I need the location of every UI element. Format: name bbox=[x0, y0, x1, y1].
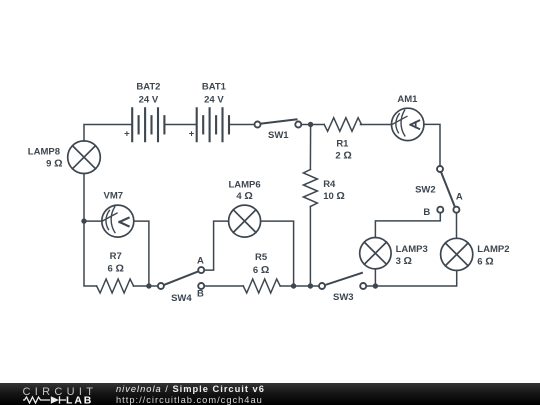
svg-text:R4: R4 bbox=[323, 179, 336, 190]
svg-text:SW3: SW3 bbox=[333, 292, 354, 303]
wire: LAMP2 bottom rail bbox=[375, 271, 456, 287]
wire: junction to VM7 bbox=[84, 220, 102, 222]
svg-text:LAMP3: LAMP3 bbox=[396, 244, 428, 255]
resistor R5 bbox=[243, 279, 280, 293]
svg-text:AM1: AM1 bbox=[397, 94, 418, 105]
svg-text:A: A bbox=[456, 191, 463, 202]
footer line 1 bbox=[116, 384, 265, 394]
svg-text:6 Ω: 6 Ω bbox=[253, 264, 269, 276]
CircuitLab logo bbox=[0, 383, 112, 405]
wire: R5 to SW4 B bbox=[205, 285, 244, 287]
wire: AM1 to SW2 bbox=[424, 124, 440, 165]
wire: R1 to AM1 bbox=[361, 124, 392, 126]
svg-text:LAMP6: LAMP6 bbox=[228, 180, 260, 191]
switch SW1 bbox=[255, 119, 302, 127]
svg-text:B: B bbox=[197, 288, 204, 299]
svg-text:LAMP2: LAMP2 bbox=[477, 244, 509, 255]
lamp LAMP2 bbox=[441, 238, 473, 270]
meter VM7 voltmeter bbox=[102, 205, 134, 237]
svg-text:B: B bbox=[423, 207, 430, 218]
svg-text:3 Ω: 3 Ω bbox=[396, 255, 412, 267]
svg-text:LAMP8: LAMP8 bbox=[28, 146, 60, 157]
svg-text:2 Ω: 2 Ω bbox=[335, 150, 351, 162]
meter AM1 ammeter bbox=[392, 108, 424, 140]
switch SW3 bbox=[319, 273, 366, 289]
wire: LAMP6 right to rail bbox=[261, 221, 294, 286]
svg-text:SW1: SW1 bbox=[268, 130, 289, 141]
wire: SW3 right contact to junction bbox=[367, 285, 376, 287]
battery BAT2 bbox=[132, 108, 164, 141]
svg-text:SW4: SW4 bbox=[171, 293, 192, 304]
svg-text:R1: R1 bbox=[336, 139, 349, 150]
wire: SW4 A to LAMP6 bbox=[205, 221, 229, 270]
svg-text:24 V: 24 V bbox=[204, 94, 224, 105]
footer line 2 bbox=[116, 395, 263, 405]
node junction VM7/rail bbox=[146, 283, 151, 288]
node junction LAMP6/rail bbox=[291, 283, 296, 288]
svg-text:10 Ω: 10 Ω bbox=[323, 190, 345, 202]
wire: BAT2 to BAT1 bbox=[164, 124, 196, 126]
svg-text:24 V: 24 V bbox=[139, 94, 159, 105]
svg-text:R5: R5 bbox=[255, 252, 268, 263]
svg-text:R7: R7 bbox=[110, 251, 122, 262]
wire: SW1 to R1 bbox=[302, 124, 325, 126]
battery BAT1 bbox=[197, 108, 229, 141]
switch SW4 bbox=[158, 267, 204, 289]
lamp LAMP6 bbox=[229, 205, 261, 237]
svg-text:4 Ω: 4 Ω bbox=[236, 190, 252, 202]
wire: LAMP3 bottom to rail bbox=[374, 269, 376, 286]
svg-text:BAT1: BAT1 bbox=[202, 82, 227, 93]
svg-text:+: + bbox=[124, 128, 130, 139]
footer bar bbox=[0, 383, 540, 405]
resistor R4 bbox=[303, 170, 317, 207]
lamp LAMP3 bbox=[360, 238, 391, 269]
svg-text:SW2: SW2 bbox=[415, 185, 436, 196]
node junction LAMP8/VM7 bbox=[81, 218, 86, 223]
node junction SW1/R1/R4 bbox=[308, 122, 313, 127]
node junction R4/rail bbox=[308, 283, 313, 288]
wire: SW2 A to LAMP2 bbox=[456, 213, 458, 238]
wire: VM7 right down to rail bbox=[134, 221, 149, 286]
wire: SW2 B to LAMP3 bbox=[375, 213, 440, 238]
resistor R1 bbox=[324, 118, 361, 132]
wire: LAMP8 down left rail to R7 bbox=[84, 174, 97, 287]
svg-text:VM7: VM7 bbox=[104, 191, 124, 202]
wire: R4 bottom bbox=[309, 207, 311, 287]
svg-text:BAT2: BAT2 bbox=[136, 82, 160, 93]
wire: LAMP8 top to BAT2 bbox=[84, 125, 132, 142]
svg-text:6 Ω: 6 Ω bbox=[108, 263, 124, 275]
wire: rail SW3 to R5 bbox=[280, 285, 319, 287]
svg-text:+: + bbox=[189, 128, 195, 139]
wire: R4 top bbox=[309, 125, 311, 170]
svg-text:LAB: LAB bbox=[66, 394, 93, 405]
wire: BAT1 to SW1 bbox=[229, 124, 254, 126]
node junction LAMP3/rail bbox=[373, 283, 378, 288]
switch SW2 bbox=[437, 166, 459, 213]
svg-text:6 Ω: 6 Ω bbox=[477, 255, 493, 267]
svg-text:A: A bbox=[197, 256, 204, 267]
lamp LAMP8 bbox=[68, 141, 101, 174]
resistor R7 bbox=[97, 279, 134, 293]
wire: R7 to SW4 bbox=[133, 285, 157, 287]
svg-text:9 Ω: 9 Ω bbox=[46, 158, 62, 170]
